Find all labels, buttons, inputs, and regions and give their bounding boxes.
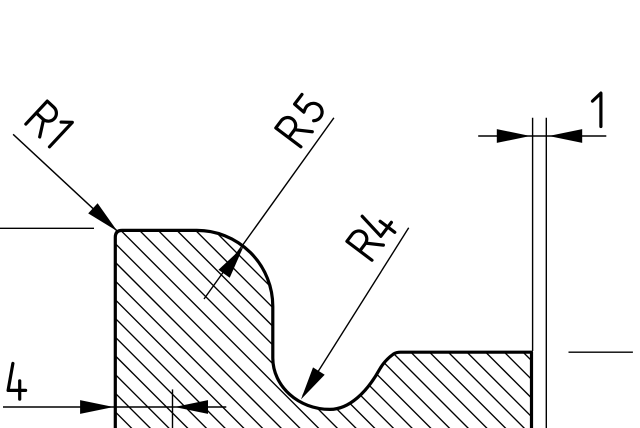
hatching of cross-section (0, 215, 603, 428)
extension line 1 right (545, 118, 547, 428)
R1 arrow: tip (117.4,231.2) angle 43deg (88, 203, 122, 236)
dim1 right arrow: tip (548.7,136) angle 180 (549, 129, 583, 143)
extension line for 4 (172, 389, 174, 428)
dim4 right arrow: tip (174.5,407) angle 180 (175, 400, 209, 414)
label R5 (276, 93, 328, 147)
dim4 left arrow: tip (113.6,407) angle 0 (80, 400, 114, 414)
arrows (80, 129, 582, 414)
label R4 (345, 206, 399, 261)
label 1 (593, 93, 601, 126)
R (276, 113, 312, 147)
R (26, 101, 61, 137)
thin lines (0, 118, 633, 428)
R4 arrow: tip (301,399.4) angle 122.2 (295, 367, 325, 403)
profile cross-section body (hatched fill) (115, 230, 531, 428)
dim1 left arrow: tip (530.3,136) angle 0 (497, 129, 531, 143)
extension line right of flange top (569, 351, 633, 353)
label R1 (26, 100, 73, 147)
dim line 1 (478, 135, 606, 137)
dim line 4 (3, 406, 226, 408)
R5 arrow: tip (242.3,246.5) angle -54.6 (218, 243, 249, 278)
leader R5 (204, 118, 334, 299)
leader R4 (303, 228, 409, 396)
4 (359, 206, 398, 241)
1 (43, 117, 72, 147)
extension line top-left (from top edge to left) (0, 227, 94, 229)
leader R1 (13, 134, 117, 231)
texts drawn as iso-font-like strokes (8, 93, 601, 399)
R (347, 226, 383, 260)
extension line 1 left (532, 118, 534, 351)
label 4 (8, 363, 26, 399)
5 (294, 93, 326, 123)
